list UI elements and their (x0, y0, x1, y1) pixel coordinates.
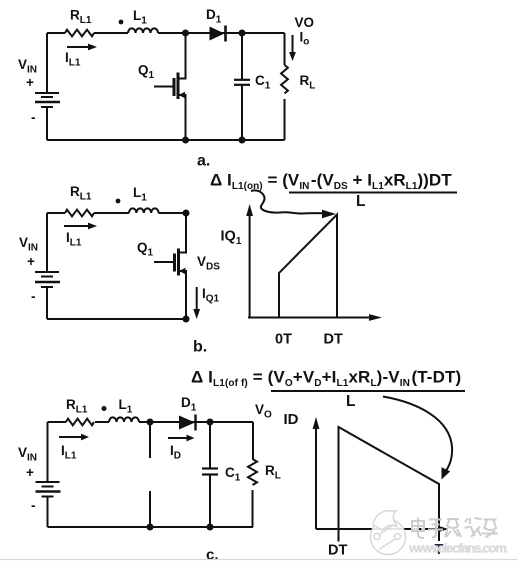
node dot (switch on bottom rail, circuit c) (147, 524, 154, 531)
node dot (C1 on bottom rail, circuit c) (207, 524, 214, 531)
bullet dot between RL1 and L1 labels (circuit a) (119, 20, 124, 25)
open switch stubs (Q1 removed, circuit c) (149, 422, 151, 527)
battery VIN (circuit c) (36, 482, 61, 497)
wire: top rail circuit c (48, 421, 254, 423)
wire: bottom rail circuit a (47, 139, 285, 141)
fraction bar equation 1 (289, 192, 457, 194)
watermark CJK text 电子发烧友 (approximated glyph shapes) (412, 518, 498, 539)
svg-text:a.: a. (197, 153, 210, 170)
bullet dot between RL1 and L1 labels (circuit c) (102, 406, 107, 411)
transistor Q1 (circuit b) (154, 213, 186, 319)
wire: bottom rail circuit c (48, 526, 254, 528)
wire: bottom rail circuit b (47, 318, 186, 320)
svg-text:L: L (346, 393, 355, 410)
graph b horizontal axis (248, 314, 382, 321)
bottom border line (0, 559, 517, 561)
wire: left vertical circuit c (47, 422, 49, 482)
node dot (Q1 source on bottom rail, circuit a) (182, 137, 189, 144)
resistor RL (circuit a) (281, 33, 288, 140)
arrow IL1 current (circuit b) (64, 223, 97, 230)
svg-text:L: L (356, 193, 365, 210)
wire: battery to bottom rail circuit c (47, 497, 49, 528)
svg-text:VO: VO (295, 15, 315, 30)
graph b IQ1 waveform (279, 215, 337, 318)
inductor L1 (circuit a) (128, 28, 158, 33)
wire: left vertical circuit a (46, 33, 48, 93)
wire: top rail circuit b (47, 212, 186, 214)
svg-text:-: - (31, 289, 36, 304)
svg-text:ID: ID (284, 411, 299, 428)
node dot (L1/Q1/D1 junction, circuit a) (182, 30, 189, 37)
arrow Io current (circuit a) (289, 35, 296, 61)
svg-text:-: - (31, 110, 36, 125)
wire: left vertical circuit b (46, 213, 48, 272)
node dot (D1/C1 junction, circuit c) (207, 419, 214, 426)
graph c vertical axis (313, 417, 320, 529)
wire: battery to bottom rail circuit a (46, 107, 48, 140)
node dot (Q1 source on bottom rail, circuit b) (183, 316, 190, 323)
wire: battery to bottom rail circuit b (46, 287, 48, 319)
node dot (L1/switch/D1 junction, circuit c) (147, 419, 154, 426)
resistor RL1 (circuit b) (65, 210, 94, 217)
capacitor C1 (circuit c) (202, 422, 218, 527)
svg-text:+: + (26, 75, 34, 90)
battery VIN (circuit b) (35, 272, 60, 287)
capacitor C1 (circuit a) (234, 33, 250, 140)
resistor RL (circuit c) (248, 422, 257, 527)
svg-text:b.: b. (193, 339, 207, 356)
svg-text:-: - (31, 498, 36, 513)
arrow IQ1 current (circuit b) (193, 287, 200, 319)
node dot (D1/C1 junction, circuit a) (239, 30, 246, 37)
node dot (C1 on bottom rail, circuit a) (239, 137, 246, 144)
fraction bar equation 2 (271, 390, 465, 392)
resistor RL1 (circuit c) (66, 419, 94, 426)
diode D1 (circuit c) (179, 415, 196, 431)
arrow IL1 current (circuit a) (67, 44, 97, 51)
svg-text:0T: 0T (275, 332, 292, 348)
resistor RL1 (circuit a) (65, 30, 94, 37)
svg-text:DT: DT (324, 332, 343, 348)
svg-text:DT: DT (328, 543, 347, 559)
transistor Q1 (circuit a) (154, 33, 186, 140)
inductor L1 (circuit b) (129, 208, 159, 213)
bullet dot between RL1 and L1 labels (circuit b) (116, 199, 121, 204)
graph c ID waveform (339, 427, 440, 542)
watermark logo circle (371, 511, 406, 555)
curved arrow from equation 2 to graph c ramp end (383, 397, 452, 480)
graph c horizontal axis (316, 526, 449, 532)
arrow ID current (circuit c) (168, 435, 195, 442)
wire: top rail circuit a (47, 32, 285, 34)
svg-text:c.: c. (206, 547, 219, 564)
svg-text:+: + (27, 254, 35, 269)
inductor L1 (circuit c) (109, 417, 139, 422)
diode D1 (circuit a) (210, 26, 226, 42)
node dot (L1/Q1 junction, circuit b) (183, 210, 190, 217)
svg-text:+: + (26, 465, 34, 480)
graph b vertical axis (246, 204, 253, 318)
battery VIN (circuit a) (35, 93, 60, 107)
squiggle arrow from equation 1 to graph peak (251, 190, 336, 218)
arrow IL1 current (circuit c) (59, 434, 89, 441)
svg-text:www.elecfans.com: www.elecfans.com (408, 541, 507, 556)
